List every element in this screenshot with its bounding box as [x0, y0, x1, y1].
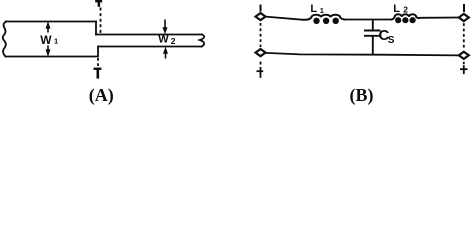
node P2' bottom-right port diamond: [459, 52, 469, 59]
wire wide-strip top edge: [6, 21, 96, 23]
wide-strip torn left edge: [3, 22, 6, 57]
svg-text:S: S: [388, 35, 395, 46]
dash below bottom-right diamond: [463, 62, 465, 64]
step edge top: [95, 22, 97, 35]
narrow-strip torn right edge: [200, 35, 204, 47]
capacitor CS plates: [364, 31, 381, 36]
dash below bottom-left diamond: [260, 62, 262, 65]
reference plane dashed line bottom (A): [97, 58, 99, 67]
svg-text:1: 1: [320, 6, 324, 15]
svg-text:W: W: [40, 33, 52, 47]
tick above left port: [260, 5, 262, 12]
svg-text:L: L: [310, 3, 317, 15]
wire wide-strip bottom edge: [6, 56, 98, 58]
svg-text:W: W: [158, 33, 169, 45]
wire top left segment: [266, 17, 303, 20]
node P2 top-right port diamond: [459, 14, 469, 21]
wire top right segment: [421, 17, 459, 19]
inductor L1 winding arcs: [302, 15, 346, 20]
svg-text:2: 2: [171, 36, 176, 46]
capacitor CS stem bottom: [372, 37, 374, 55]
wire bottom: [266, 53, 459, 56]
capacitor CS stem top: [372, 20, 374, 30]
wire narrow-strip bottom edge: [98, 46, 202, 48]
node P1 top-left port diamond: [256, 13, 266, 20]
svg-text:(B): (B): [350, 85, 374, 105]
dimension arrow W1 (double-headed, vertical): [46, 22, 50, 56]
reference plane dashed line top (A): [100, 8, 102, 34]
reference plane label T top (A): [95, 0, 102, 7]
svg-text:2: 2: [403, 5, 408, 15]
svg-text:(A): (A): [89, 85, 114, 105]
wire top middle segment: [346, 19, 392, 21]
wire narrow-strip top edge: [96, 34, 202, 36]
inductor L2 loops (filled): [395, 17, 416, 23]
cross mark below left port: [257, 67, 264, 78]
inductor L1 loops (filled): [313, 18, 339, 24]
node P1' bottom-left port diamond: [256, 49, 266, 56]
reference plane label T bottom (A): [94, 68, 102, 79]
dimension arrow W2 top (points down to strip): [163, 20, 167, 34]
inductor L2 winding arcs: [391, 14, 421, 19]
dashed line right port: [463, 23, 465, 50]
step edge bottom: [97, 47, 99, 57]
svg-text:L: L: [393, 3, 400, 15]
tick above right port: [463, 4, 465, 12]
svg-text:1: 1: [54, 37, 58, 46]
dimension arrow W2 bottom (points up to strip): [163, 48, 167, 59]
dashed line left port: [260, 23, 262, 47]
cross mark below right port: [460, 65, 468, 74]
